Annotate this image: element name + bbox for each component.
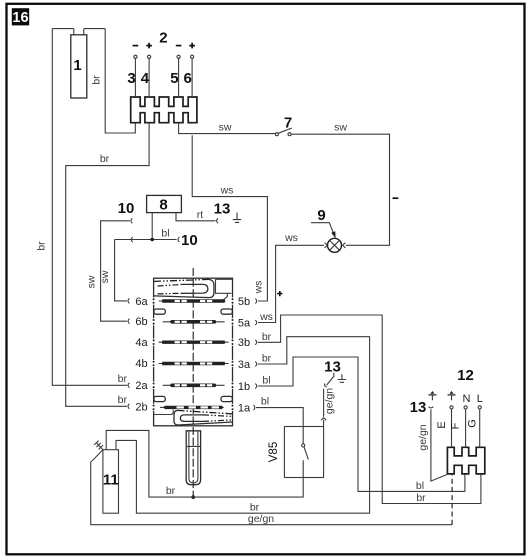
svg-text:13: 13 bbox=[410, 399, 427, 416]
svg-text:sw: sw bbox=[99, 270, 111, 283]
svg-text:br: br bbox=[118, 373, 128, 385]
camshaft center line (dashed) bbox=[192, 268, 194, 497]
heating element 2 (comb symbol) bbox=[131, 97, 197, 123]
svg-text:7: 7 bbox=[284, 114, 292, 131]
wire br: 3b to mains L bbox=[258, 315, 481, 504]
connector 10 upper bbox=[131, 218, 132, 223]
junction dot (motor to br) bbox=[191, 495, 195, 499]
svg-text:ws: ws bbox=[284, 232, 298, 244]
svg-text:12: 12 bbox=[457, 367, 474, 384]
wire ws: heater 6 to 5b bbox=[192, 135, 267, 301]
terminal 6 circle and wire bbox=[184, 43, 195, 97]
connector 13 (rt) bbox=[217, 218, 218, 223]
connector (ge/gn riser) bbox=[321, 418, 326, 421]
wire ws: lamp to 5a bbox=[258, 245, 324, 322]
svg-text:sw: sw bbox=[334, 122, 347, 134]
svg-text:sw: sw bbox=[86, 275, 98, 288]
connector 10 lower bbox=[178, 237, 179, 242]
connector at 5a bbox=[255, 320, 256, 325]
svg-text:N: N bbox=[463, 393, 471, 405]
ground symbol (at 13 rt) bbox=[233, 213, 241, 223]
svg-text:bl: bl bbox=[161, 228, 169, 240]
wire bl: 1a to valve V85 bbox=[256, 408, 303, 444]
svg-text:bl: bl bbox=[261, 396, 269, 408]
svg-text:4: 4 bbox=[141, 70, 150, 87]
contact row 6b/5a bbox=[163, 321, 225, 323]
terminal 4 circle and wire bbox=[141, 43, 152, 97]
svg-text:2b: 2b bbox=[135, 402, 147, 414]
svg-text:br: br bbox=[416, 492, 426, 504]
svg-text:V85: V85 bbox=[268, 442, 280, 462]
wire 10 upper: to contact 6b bbox=[101, 221, 130, 321]
connector at 2b bbox=[128, 404, 129, 409]
svg-text:2: 2 bbox=[159, 30, 167, 47]
contact row 6a/5b bbox=[159, 293, 228, 302]
wire br: 3a to suppressor 11 bbox=[116, 337, 370, 514]
svg-text:br: br bbox=[91, 75, 103, 85]
svg-text:10: 10 bbox=[118, 200, 135, 217]
svg-text:8: 8 bbox=[159, 196, 167, 213]
contact row 4b/3a bbox=[159, 362, 229, 365]
wire br: right vertical from comp1 to heater bottom bbox=[105, 29, 135, 133]
svg-text:br: br bbox=[118, 394, 128, 406]
terminal N circle and wire bbox=[450, 406, 468, 448]
svg-text:ws: ws bbox=[253, 281, 265, 295]
svg-text:6: 6 bbox=[184, 70, 192, 87]
svg-text:br: br bbox=[166, 485, 176, 497]
svg-text:rt: rt bbox=[197, 209, 203, 221]
svg-text:1a: 1a bbox=[238, 403, 251, 415]
connector at 5b bbox=[255, 299, 256, 304]
wire br: long left run to contact 2a bbox=[52, 29, 127, 386]
suppressor 11 bbox=[103, 450, 119, 514]
svg-text:5: 5 bbox=[170, 70, 178, 87]
svg-text:3: 3 bbox=[127, 70, 135, 87]
svg-text:ws: ws bbox=[220, 185, 234, 197]
svg-text:10: 10 bbox=[181, 232, 198, 249]
svg-text:1b: 1b bbox=[238, 381, 250, 393]
svg-text:6b: 6b bbox=[135, 316, 147, 328]
wire br: heater to contact 2b bbox=[66, 123, 149, 407]
svg-text:5b: 5b bbox=[238, 296, 250, 308]
wire bl: box 8 to 10 and contact 6a bbox=[115, 213, 177, 301]
connector 13 (ge/gn mains) bbox=[429, 407, 434, 408]
svg-text:br: br bbox=[250, 502, 260, 514]
lamp 9 bbox=[325, 238, 346, 252]
svg-text:br: br bbox=[36, 241, 48, 251]
terminal 5 circle and wire bbox=[170, 46, 181, 97]
dashed riser to mains connector earth bbox=[451, 475, 453, 525]
bottom cam flag bbox=[154, 410, 233, 425]
connector mid-line (bl) bbox=[131, 237, 132, 242]
svg-text:6a: 6a bbox=[135, 296, 148, 308]
earth symbol right bbox=[448, 391, 456, 400]
svg-text:bl: bl bbox=[416, 480, 424, 492]
svg-text:3b: 3b bbox=[238, 337, 250, 349]
wire bl: 1b to mains N bbox=[258, 357, 465, 491]
svg-text:G: G bbox=[467, 419, 479, 428]
svg-text:ge/gn: ge/gn bbox=[248, 513, 274, 525]
wire rt: box 8 to terminal 13 bbox=[176, 213, 216, 221]
cam follower tabs bbox=[154, 309, 233, 402]
svg-text:5a: 5a bbox=[238, 317, 251, 329]
junction dot bbox=[150, 238, 154, 242]
svg-text:9: 9 bbox=[317, 207, 325, 224]
svg-text:sw: sw bbox=[219, 122, 232, 134]
wire: top horizontal left bbox=[52, 28, 74, 30]
diagram number plate 16 bbox=[12, 8, 29, 26]
svg-text:4b: 4b bbox=[135, 358, 147, 370]
contact row 4a/3b bbox=[159, 341, 229, 344]
wire: top horizontal right bbox=[84, 28, 105, 30]
svg-text:bl: bl bbox=[262, 374, 270, 386]
valve V85 box bbox=[284, 427, 323, 478]
terminal 3 circle and wire bbox=[127, 46, 138, 97]
wire ge/gn: suppressor to mains earth bbox=[91, 450, 452, 525]
program switch box bbox=[154, 278, 233, 426]
svg-text:2a: 2a bbox=[135, 380, 148, 392]
connector at 3b bbox=[255, 340, 256, 345]
top cam flag bbox=[154, 279, 233, 297]
switch 13 (door) with ground bbox=[324, 358, 346, 387]
wire: valve to br bus bbox=[106, 430, 303, 497]
earth symbol left bbox=[428, 391, 436, 400]
wire: component 1 pin stubs bbox=[74, 29, 84, 35]
wire sw: heater to switch 7 bbox=[179, 123, 276, 134]
svg-text:1: 1 bbox=[73, 57, 81, 74]
svg-text:L: L bbox=[477, 393, 483, 405]
connector at 6b bbox=[128, 319, 129, 324]
svg-text:br: br bbox=[100, 153, 110, 165]
label minus bbox=[393, 197, 399, 199]
chassis stroke with hatching bbox=[94, 441, 103, 450]
svg-text:E: E bbox=[436, 421, 448, 428]
control box 8 bbox=[147, 195, 182, 213]
svg-text:F: F bbox=[450, 422, 462, 429]
connector at 3a bbox=[255, 362, 256, 367]
box edge dots bbox=[153, 298, 234, 410]
connector at 2a bbox=[128, 383, 129, 388]
svg-text:11: 11 bbox=[103, 472, 119, 489]
svg-text:ge/gn: ge/gn bbox=[324, 388, 336, 414]
svg-text:13: 13 bbox=[324, 358, 341, 375]
svg-text:br: br bbox=[262, 331, 272, 343]
label 9 with arrow bbox=[311, 207, 336, 238]
label plus at 5b bbox=[277, 291, 282, 296]
connector at 1a bbox=[254, 405, 255, 410]
terminal L circle and wire bbox=[467, 406, 482, 448]
svg-text:4a: 4a bbox=[135, 337, 148, 349]
svg-text:3a: 3a bbox=[238, 359, 251, 371]
svg-text:ge/gn: ge/gn bbox=[417, 424, 429, 450]
box edge gaps at contact rows bbox=[152, 297, 235, 411]
mains connector 12 (comb symbol) bbox=[447, 447, 484, 474]
connector at 6a bbox=[128, 298, 129, 303]
wire sw: switch 7 to lamp branch bbox=[291, 134, 390, 245]
svg-text:br: br bbox=[262, 353, 272, 365]
contact row 2b/1a bbox=[160, 406, 224, 410]
connector at 1b bbox=[255, 384, 256, 389]
component 1 (heater) bbox=[71, 35, 87, 98]
svg-text:ws: ws bbox=[259, 311, 273, 323]
svg-text:13: 13 bbox=[214, 201, 231, 218]
contact row 2a/1b bbox=[163, 384, 225, 386]
valve switch contact bbox=[302, 444, 309, 460]
wire ge/gn: switch 13 to valve housing bbox=[323, 389, 325, 427]
terminal E circle and wire bbox=[436, 406, 453, 448]
svg-text:16: 16 bbox=[12, 10, 28, 26]
timer motor bbox=[186, 431, 200, 485]
wire ge/gn: mains 13 to earth pin bbox=[431, 409, 449, 481]
switch 7 bbox=[275, 114, 292, 135]
